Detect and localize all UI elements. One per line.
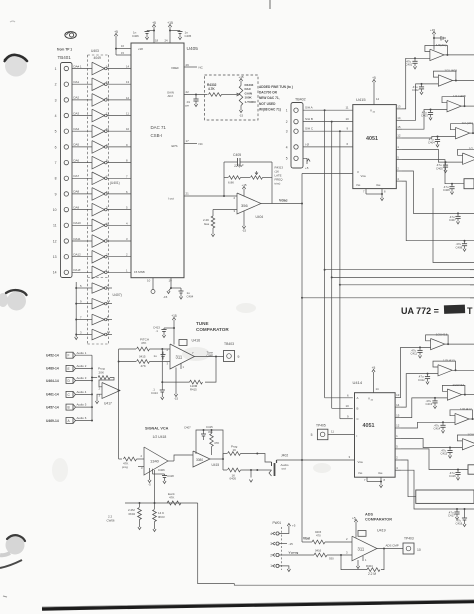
wire audio 5 to summing bus [76, 403, 94, 408]
svg-text:1/2 U408: 1/2 U408 [453, 94, 466, 98]
wire TB401 pin 2 to buffer [72, 80, 92, 84]
svg-text:U464-14: U464-14 [46, 379, 59, 383]
wire buffer 4 output to DAC71 pin [106, 112, 131, 116]
svg-text:C415: C415 [206, 425, 213, 429]
svg-text:U416: U416 [192, 339, 201, 343]
capacitor C415 33p in feedback [184, 425, 213, 440]
wire inverter 3 output stub [106, 315, 112, 320]
DAC pin 22 gain adjust wire [167, 90, 208, 98]
connector TB402 [286, 98, 306, 169]
svg-text:11: 11 [346, 105, 349, 109]
output wire lower buffer 3 [462, 394, 474, 396]
svg-text:TUNE: TUNE [196, 321, 209, 326]
buffer U403-8 [92, 172, 107, 185]
svg-text:Audio 3: Audio 3 [77, 376, 87, 380]
wire TB401 pin 9 to buffer [72, 190, 92, 194]
svg-text:C418: C418 [456, 522, 463, 526]
PW01 pin 2 V prog to comparator [279, 550, 314, 555]
svg-text:Audio 5: Audio 5 [77, 403, 87, 407]
PW01 pin 1 to ground [279, 566, 290, 572]
wire Vbal from common net [302, 530, 322, 542]
svg-text:0K03: 0K03 [158, 515, 165, 519]
hold capacitor for lower buffer 1 [411, 347, 423, 358]
svg-text:cer: cer [185, 103, 189, 107]
op-amp U404 356 [234, 193, 264, 219]
svg-text:12: 12 [106, 96, 110, 100]
svg-text:+5: +5 [372, 76, 376, 80]
wire S/H C from TB402 to U415 pin 9 [303, 126, 353, 132]
connector TB401 [53, 48, 73, 278]
svg-text:13: 13 [397, 105, 401, 109]
svg-text:1-TURN: 1-TURN [245, 100, 256, 104]
svg-text:18: 18 [155, 39, 159, 43]
svg-text:U414: U414 [353, 380, 363, 385]
svg-text:E: E [68, 367, 70, 371]
wire VCA bias node to resistor network [125, 502, 198, 504]
svg-text:+5: +5 [305, 166, 309, 170]
svg-text:C408: C408 [456, 245, 463, 249]
svg-text:+15: +15 [430, 28, 435, 32]
U418 + input wire [138, 467, 155, 504]
wire inverter 4 output stub [106, 330, 112, 335]
svg-text:0416: 0416 [315, 549, 322, 553]
svg-text:13: 13 [396, 393, 400, 397]
output wire lower buffer 4 [469, 418, 474, 420]
U414 output pin 13 stub [395, 393, 401, 397]
svg-text:Vbal: Vbal [303, 537, 310, 541]
svg-text:47K: 47K [141, 364, 146, 368]
svg-text:C416: C416 [449, 474, 456, 478]
svg-text:C411: C411 [411, 352, 418, 356]
feedback resistor 47K R418 over buffer [196, 429, 223, 458]
buffer U403-13 [92, 250, 107, 263]
resistor 470 on Vbal input [312, 537, 352, 544]
svg-text:U403: U403 [91, 49, 99, 53]
wire spare mux output to right edge [433, 188, 474, 263]
svg-text:U469-14: U469-14 [46, 419, 59, 423]
comparator U419 LM311 [352, 529, 386, 561]
wire U415 pin 2 routed to right edge [402, 171, 474, 214]
wire inhibit from TB402 to U415 pin 6 [303, 142, 353, 147]
wire bus B (S/H B select) vertical and tap to right edge [331, 122, 474, 409]
wire audio 4 to summing bus [76, 390, 94, 395]
svg-text:(U401): (U401) [110, 181, 120, 185]
svg-text:TB401: TB401 [58, 55, 72, 60]
svg-text:1K: 1K [233, 448, 237, 452]
buffer U403-3 [92, 94, 107, 107]
svg-text:17: 17 [186, 139, 190, 143]
svg-text:470: 470 [316, 533, 321, 537]
power +5 rail to DAC pin 18 with bypass capacitor C406 [132, 21, 159, 43]
wire S/H A from TB402 to U415 pin 11 [303, 105, 353, 111]
buffer U403-4 [92, 109, 107, 122]
svg-text:20K: 20K [99, 370, 105, 374]
S/H stage 7 block at page edge [416, 490, 474, 503]
svg-text:trim): trim) [275, 182, 281, 186]
svg-text:11: 11 [106, 112, 109, 116]
svg-text:ADS CMP: ADS CMP [386, 544, 399, 548]
wire TB401 pin 8 to buffer [72, 174, 92, 178]
hold capacitor for lower buffer 4 [434, 422, 446, 433]
wire U417 output node vertical [118, 349, 120, 459]
svg-text:+15: +15 [167, 21, 173, 25]
svg-text:UA 772 =: UA 772 = [401, 306, 439, 316]
svg-text:+5: +5 [114, 30, 118, 34]
U414 output pin 5 stub [395, 445, 401, 449]
svg-text:A: A [357, 396, 359, 400]
svg-text:2: 2 [55, 83, 57, 87]
title TUNE COMPARATOR [196, 321, 229, 332]
svg-text:13: 13 [53, 255, 57, 259]
svg-text:U407): U407) [113, 293, 122, 297]
svg-text:C407: C407 [449, 218, 456, 222]
wire U414 pin to lower S/H buffer 5 [401, 439, 462, 449]
dashed IC outline U403/U402 buffer column [88, 49, 120, 344]
wire TB401 pin 14 to buffer [72, 268, 92, 272]
svg-text:3: 3 [270, 542, 272, 546]
wire U415 pin to S/H buffer 3 [402, 109, 447, 130]
svg-text:S/H A: S/H A [305, 106, 313, 110]
svg-text:14: 14 [126, 65, 130, 69]
op-amp S/H buffer 4 (1/2 (VC)) [456, 121, 474, 139]
op-amp S/H buffer 2 (1/2 U408) [438, 69, 457, 87]
svg-text:DA# 1: DA# 1 [74, 64, 82, 68]
svg-text:12: 12 [126, 96, 130, 100]
svg-text:13: 13 [106, 80, 110, 84]
svg-text:NOT USED: NOT USED [259, 102, 276, 106]
wire buffer 11 output to DAC71 pin [106, 221, 131, 225]
resistor 930 on V prog input [314, 549, 352, 561]
svg-text:6.8K: 6.8K [228, 180, 234, 184]
buffer U403-2 [92, 78, 107, 91]
svg-text:-5: -5 [148, 483, 151, 487]
op-amp lower S/H buffer 2 (1/2U413) [438, 359, 455, 376]
output wire lower buffer 2 [452, 369, 474, 371]
inverter U407-2 [92, 298, 107, 309]
svg-text:13: 13 [126, 80, 130, 84]
svg-text:DA8: DA8 [74, 190, 80, 194]
PW01 pin 4 to +5 [279, 523, 296, 533]
wire bus A (S/H A select) vertical and tap to right edge [324, 110, 474, 398]
wire U415 pin to S/H buffer 5 [402, 149, 463, 163]
power +15 to buffer 1 with bypass cap [430, 28, 448, 50]
test point TP405 to U414 inhibit [311, 424, 358, 440]
wire U415 common pin 3 to VDAC net [302, 173, 353, 175]
hold capacitor on pin 4 line [456, 241, 468, 252]
svg-text:1/2U412: 1/2U412 [460, 407, 472, 411]
U414 output pin 4 stub [395, 466, 401, 470]
svg-text:14: 14 [376, 97, 380, 101]
capacitor C406 at U418 bias to ground [153, 468, 175, 484]
U414 output pin 14 stub [395, 403, 401, 407]
feedback wire buffer 2 [433, 71, 457, 81]
svg-text:4: 4 [286, 145, 288, 149]
svg-text:DA4: DA4 [74, 127, 80, 131]
U415 output pin 14 stub [396, 116, 402, 120]
wire S/H B from TB402 to U415 pin 10 [303, 117, 353, 123]
svg-text:DA6: DA6 [74, 158, 80, 162]
svg-text:from TP 1: from TP 1 [57, 48, 72, 52]
svg-text:+5: +5 [352, 517, 356, 521]
op-amp lower S/H buffer 3 (1/2U412) [447, 383, 464, 400]
svg-text:1/2 (VC): 1/2 (VC) [462, 121, 474, 125]
buffer U403-11 [92, 219, 107, 232]
wire TB401 pin 5 to buffer [72, 127, 92, 131]
jack sleeve to ground [249, 469, 252, 482]
hold capacitor for lower buffer 2 [418, 374, 430, 385]
svg-text:1/2U413: 1/2U413 [436, 332, 448, 336]
svg-text:11: 11 [126, 112, 129, 116]
svg-text:120pF: 120pF [234, 164, 245, 168]
wire U414 pin to lower S/H buffer 4 [401, 421, 455, 428]
U414 output pin 15 stub [395, 413, 401, 417]
svg-text:1u: 1u [154, 354, 158, 358]
audio input 6 (U469-14) [46, 418, 76, 424]
svg-text:-15: -15 [163, 295, 168, 299]
svg-text:311: 311 [176, 354, 183, 359]
wire VDAC output [261, 199, 303, 205]
wire buffer 1 output to DAC71 pin [106, 65, 131, 69]
svg-text:J402: J402 [281, 454, 288, 458]
audio input 3 (U464-14) [46, 378, 76, 384]
op-amp lower S/H buffer 4 (1/2U412) [455, 407, 472, 424]
svg-text:C405: C405 [436, 166, 443, 170]
U415 output pin 13 stub [396, 105, 402, 109]
svg-text:3: 3 [286, 130, 288, 134]
svg-text:3: 3 [55, 98, 57, 102]
svg-text:+5: +5 [152, 21, 156, 25]
output wire buffer 4 [470, 132, 474, 134]
svg-text:1/2(AC): 1/2(AC) [436, 43, 447, 47]
svg-text:T: T [467, 306, 473, 316]
svg-text:CW06: CW06 [107, 518, 115, 522]
DAC pin 17 EPS no connect [172, 139, 204, 148]
audio input 2 (U489-14) [46, 365, 76, 371]
buffer U403-7 [92, 156, 107, 169]
svg-text:6: 6 [55, 145, 57, 149]
U415 output pin 15 stub [396, 125, 402, 129]
buffer U403-14 [92, 266, 107, 279]
op-amp lower S/H buffer 5 (1/2U411) [462, 432, 474, 449]
input bus for U407 inverters [75, 282, 77, 337]
svg-text:14: 14 [397, 116, 401, 120]
svg-text:DA11: DA11 [74, 237, 81, 241]
jack J402 audio out [269, 454, 289, 477]
wire to inverter U407-1 [75, 284, 92, 289]
hold capacitor .47u for buffer 2 [412, 84, 424, 95]
wire TB401 pin 12 to buffer [72, 237, 92, 241]
svg-text:1/2U411: 1/2U411 [467, 432, 474, 436]
svg-text:DA9: DA9 [74, 205, 80, 209]
svg-text:U457-14: U457-14 [46, 405, 59, 409]
feedback resistor 6.8K [224, 176, 241, 185]
svg-text:TP403: TP403 [404, 537, 414, 541]
output wire lower buffer 1 [445, 343, 474, 345]
wire to ADS comparator feedback [198, 503, 474, 585]
wire buffer 10 output to DAC71 pin [106, 206, 131, 210]
svg-text:9: 9 [55, 192, 57, 196]
svg-text:bias: bias [204, 222, 210, 226]
U415 output pin 2 stub [396, 167, 402, 171]
power +5 to U415 Vdd pin 16 [372, 76, 379, 105]
analog mux U415 4051 [353, 97, 397, 189]
resistor 2.2M to ground [128, 502, 141, 530]
power -15 to U404 [242, 211, 247, 233]
svg-text:U415: U415 [356, 97, 366, 102]
svg-text:I Ø: I Ø [305, 142, 310, 146]
svg-text:V prog: V prog [289, 550, 299, 554]
wire buffer 14 output to DAC71 pin [106, 268, 131, 272]
svg-text:TB403: TB403 [224, 342, 234, 346]
U417 + input to ground [95, 394, 102, 403]
wire TB401 pin 13 to buffer [72, 253, 92, 257]
svg-text:EPS: EPS [172, 144, 178, 148]
svg-text:47K: 47K [141, 341, 146, 345]
svg-text:Audio 4: Audio 4 [77, 390, 87, 394]
wire TB401 pin 7 to buffer [72, 158, 92, 162]
S/H buffer 6 at page edge [464, 179, 474, 189]
wire TB401 pin 6 to buffer [72, 143, 92, 147]
wire audio 6 to summing bus [76, 416, 94, 421]
label 2.2 CW06 [107, 515, 115, 523]
svg-text:C403: C403 [421, 114, 428, 118]
svg-text:ADS: ADS [365, 513, 373, 517]
svg-text:DA7: DA7 [74, 174, 80, 178]
svg-text:C414: C414 [434, 427, 441, 431]
U416 pins 1 and 4 to -15 [174, 363, 185, 401]
PW01 pin 3 to -15 [279, 542, 293, 546]
svg-text:10: 10 [107, 330, 111, 334]
svg-text:+15: +15 [171, 314, 177, 318]
svg-text:ADJ: ADJ [168, 94, 174, 98]
resistor Excit 47K [167, 492, 181, 505]
U415 output pin 5 stub [396, 155, 402, 159]
svg-text:15: 15 [396, 413, 400, 417]
wire U414 pin to lower S/H buffer 3 [401, 397, 447, 418]
svg-text:CMP: CMP [207, 354, 213, 358]
wire TB401 pin 11 to buffer [72, 221, 92, 225]
svg-text:0K02: 0K02 [129, 512, 136, 516]
svg-text:-15: -15 [174, 397, 179, 401]
svg-text:1/2 U409: 1/2 U409 [469, 147, 474, 151]
wire U414 pin to lower S/H buffer 1 [401, 346, 431, 397]
svg-text:C401: C401 [406, 63, 413, 67]
feedback wire lower buffer 4 [450, 410, 474, 420]
audio input 5 (U457-14) [46, 404, 76, 410]
svg-text:C407: C407 [184, 426, 191, 430]
OTA U418 1340 VCA [141, 447, 169, 475]
svg-text:C: C [357, 417, 359, 421]
svg-text:prog: prog [122, 465, 128, 469]
power +5 to U419 [352, 517, 358, 538]
svg-text:-15: -15 [239, 114, 244, 118]
svg-text:NEW DAC 71,: NEW DAC 71, [259, 96, 280, 100]
svg-text:Vee: Vee [378, 471, 383, 475]
svg-text:14: 14 [53, 271, 57, 275]
svg-text:0405: 0405 [230, 477, 237, 481]
wire buffer 7 output to DAC71 pin [106, 159, 131, 163]
inverter U407-3 [92, 314, 107, 325]
op-amp S/H buffer 3 (1/2 U408) [447, 94, 466, 112]
wire buffer 12 output to DAC71 pin [106, 237, 131, 241]
svg-text:C413: C413 [426, 402, 433, 406]
svg-text:4: 4 [270, 532, 272, 536]
buffer U403-1 [92, 62, 107, 75]
U414 select pin B [346, 404, 359, 411]
svg-text:4: 4 [55, 114, 57, 118]
svg-text:1340: 1340 [150, 459, 160, 464]
svg-text:U417: U417 [104, 402, 112, 406]
wire VCA output to buffer [168, 455, 193, 461]
wire bus C (S/H C select) vertical and tap to right edge [339, 131, 474, 419]
svg-text:1/2U413: 1/2U413 [443, 359, 455, 363]
note UA772 equivalence [401, 305, 473, 316]
audio input 4 (U461-14) [46, 391, 76, 397]
svg-text:COMPARATOR: COMPARATOR [365, 518, 392, 522]
svg-text:10: 10 [147, 279, 151, 283]
svg-text:-15: -15 [289, 542, 294, 546]
wire U414 common pin 3 to VDAC net [302, 455, 355, 460]
resistor VTX PROG to VCA - input [119, 457, 144, 469]
wire to inverter U407-3 [75, 315, 92, 320]
svg-text:U489-14: U489-14 [46, 367, 59, 371]
svg-text:10: 10 [346, 117, 350, 121]
svg-text:10: 10 [53, 208, 57, 212]
svg-text:4051: 4051 [366, 136, 378, 142]
svg-text:1/2 U418: 1/2 U418 [153, 435, 167, 439]
feedback wire lower buffer 5 [457, 435, 474, 445]
svg-text:2: 2 [286, 120, 288, 124]
TB402 pin 5 to +5 [303, 158, 310, 170]
svg-text:47K: 47K [214, 441, 219, 445]
hold capacitor .47u for buffer 4 [428, 137, 440, 148]
svg-text:DA Ø: DA Ø [74, 268, 82, 272]
output wire buffer 1 [444, 54, 474, 56]
svg-text:2.2 M: 2.2 M [368, 572, 376, 576]
svg-text:12: 12 [107, 299, 111, 303]
svg-text:B: B [68, 406, 70, 410]
svg-text:U405: U405 [187, 46, 199, 52]
svg-text:19: 19 [169, 279, 173, 283]
power +5 to DAC logic supply pins [114, 30, 143, 55]
capacitor C414 between comparator inputs [154, 352, 166, 360]
svg-text:5: 5 [55, 130, 57, 134]
svg-text:W/(88 DAC 71): W/(88 DAC 71) [259, 107, 281, 111]
svg-text:15: 15 [397, 125, 401, 129]
inverter U407-1 [92, 283, 107, 293]
svg-text:12: 12 [397, 134, 401, 138]
svg-text:DA12: DA12 [74, 253, 82, 257]
trim pot R4333 DAC GAIN 100K 1-TURN [222, 75, 256, 118]
svg-text:VREF: VREF [171, 66, 179, 70]
svg-text:5: 5 [311, 433, 313, 437]
svg-text:22: 22 [186, 90, 190, 94]
buffer U403-9 [92, 188, 107, 201]
test point TP403 [403, 537, 421, 555]
capacitor C414 .1 to ground on feedback node [151, 381, 165, 400]
lower S/H stage 6 at page edge [468, 465, 474, 474]
buffer U403-12 [92, 235, 107, 248]
svg-text:B: B [357, 407, 359, 411]
U415 output pin 12 stub [396, 134, 402, 138]
wire U415 pin to S/H buffer 4 [402, 136, 456, 139]
wire to jack tip [257, 454, 271, 471]
wire buffer 13 output to DAC71 pin [106, 253, 131, 257]
power +5 to U414 Vdd [372, 366, 379, 393]
svg-text:1/2U412: 1/2U412 [452, 383, 464, 387]
wire tune comparator output [195, 351, 224, 358]
svg-text:33p: 33p [208, 430, 213, 434]
